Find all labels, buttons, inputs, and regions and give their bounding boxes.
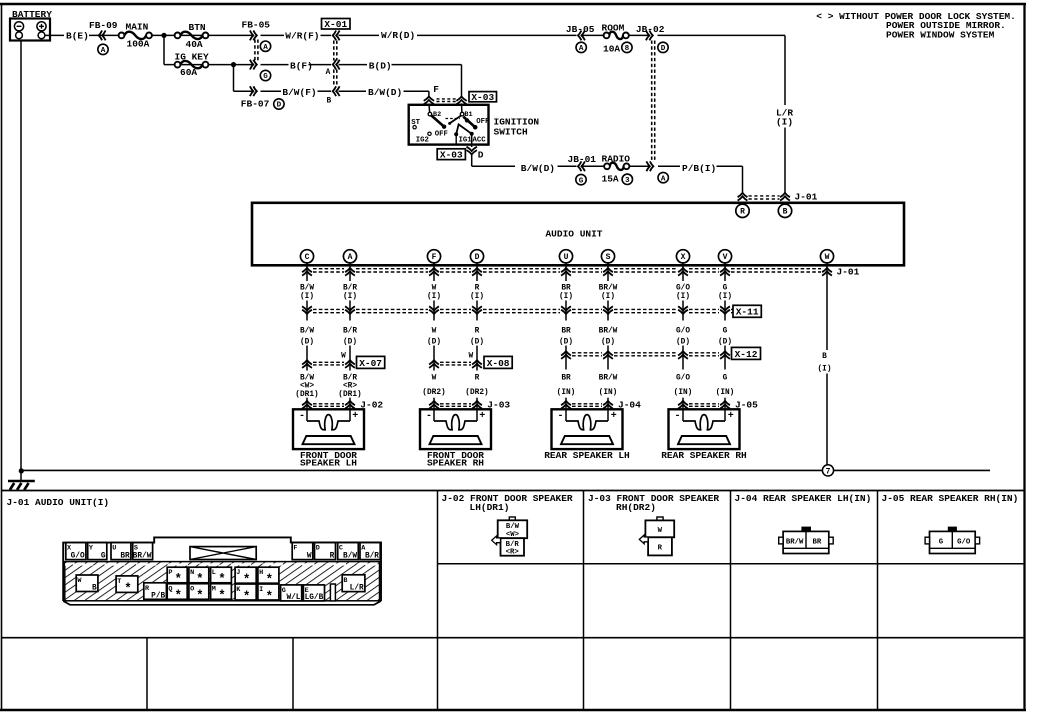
svg-text:BR: BR: [813, 538, 822, 546]
svg-text:X-01: X-01: [324, 19, 347, 30]
svg-text:7: 7: [826, 468, 831, 477]
svg-text:BATTERY: BATTERY: [12, 9, 52, 20]
svg-text:B/R: B/R: [343, 327, 357, 335]
svg-text:SPEAKER LH: SPEAKER LH: [300, 458, 357, 469]
svg-text:G: G: [282, 587, 286, 595]
svg-text:F: F: [433, 84, 439, 95]
svg-text:(I): (I): [718, 293, 732, 301]
svg-text:G: G: [723, 284, 728, 292]
svg-text:W: W: [825, 253, 830, 262]
svg-text:W/R(D): W/R(D): [381, 30, 415, 41]
svg-text:D: D: [661, 45, 666, 53]
svg-text:X-12: X-12: [735, 349, 758, 360]
svg-text:LH(DR1): LH(DR1): [470, 502, 510, 513]
svg-text:(IN): (IN): [599, 389, 618, 397]
svg-text:+: +: [352, 411, 358, 422]
svg-text:N: N: [190, 569, 194, 577]
svg-text:J-01 AUDIO UNIT(I): J-01 AUDIO UNIT(I): [7, 497, 110, 508]
svg-text:AUDIO UNIT: AUDIO UNIT: [545, 228, 602, 239]
svg-text:POWER WINDOW SYSTEM: POWER WINDOW SYSTEM: [886, 30, 995, 41]
svg-text:+: +: [728, 411, 734, 422]
svg-text:FB-09: FB-09: [89, 20, 118, 31]
svg-text:X-03: X-03: [471, 92, 494, 103]
svg-text:BR: BR: [561, 284, 571, 292]
svg-text:U: U: [564, 253, 569, 262]
svg-text:SPEAKER RH: SPEAKER RH: [427, 458, 484, 469]
svg-text:(D): (D): [718, 338, 732, 346]
svg-text:BR: BR: [120, 553, 130, 561]
svg-text:IG1: IG1: [459, 137, 473, 145]
svg-text:J-04 REAR SPEAKER LH(IN): J-04 REAR SPEAKER LH(IN): [735, 493, 872, 504]
svg-text:(D): (D): [470, 338, 484, 346]
svg-text:B/W: B/W: [300, 327, 314, 335]
svg-text:B/R: B/R: [343, 375, 357, 383]
svg-text:W: W: [432, 375, 437, 383]
svg-text:(D): (D): [676, 338, 690, 346]
svg-text:IG2: IG2: [416, 137, 429, 145]
svg-text:J-01: J-01: [795, 192, 818, 203]
svg-text:T: T: [117, 578, 121, 586]
svg-text:M: M: [212, 586, 216, 594]
svg-text:(D): (D): [300, 338, 314, 346]
svg-text:W: W: [432, 327, 437, 335]
svg-text:FB-07: FB-07: [241, 99, 270, 110]
svg-text:(IN): (IN): [557, 389, 576, 397]
svg-text:OFF: OFF: [476, 118, 489, 126]
svg-text:IG KEY: IG KEY: [175, 51, 210, 62]
svg-text:B/W(F): B/W(F): [282, 87, 316, 98]
svg-text:R: R: [475, 375, 480, 383]
svg-text:<W>: <W>: [506, 531, 520, 539]
svg-text:RH(DR2): RH(DR2): [616, 502, 656, 513]
svg-text:BR/W: BR/W: [599, 375, 618, 383]
svg-text:*: *: [218, 589, 226, 603]
svg-text:W/R(F): W/R(F): [285, 31, 319, 42]
svg-text:W: W: [307, 553, 312, 561]
svg-text:I: I: [259, 586, 263, 594]
svg-text:R: R: [658, 545, 663, 553]
svg-text:S: S: [606, 253, 611, 262]
svg-text:W: W: [658, 527, 663, 535]
svg-text:A: A: [661, 175, 666, 183]
svg-text:U: U: [112, 545, 116, 553]
svg-text:R: R: [330, 553, 335, 561]
svg-text:L/R: L/R: [350, 585, 364, 593]
svg-text:B: B: [783, 208, 788, 217]
svg-text:C: C: [305, 253, 310, 262]
svg-text:G/O: G/O: [676, 284, 690, 292]
svg-text:(I): (I): [427, 293, 441, 301]
svg-text:J: J: [236, 569, 240, 577]
svg-text:J-05 REAR SPEAKER RH(IN): J-05 REAR SPEAKER RH(IN): [882, 493, 1019, 504]
svg-text:(I): (I): [817, 365, 831, 373]
svg-text:BR/W: BR/W: [786, 538, 804, 546]
svg-text:*: *: [243, 590, 251, 604]
svg-text:G/O: G/O: [676, 327, 690, 335]
svg-text:B/W: B/W: [300, 284, 314, 292]
svg-text:<R>: <R>: [506, 549, 520, 557]
svg-text:SWITCH: SWITCH: [494, 127, 529, 138]
svg-text:(I): (I): [470, 293, 484, 301]
svg-text:(DR2): (DR2): [422, 389, 445, 397]
svg-text:B/W(D): B/W(D): [368, 87, 402, 98]
svg-text:(I): (I): [676, 293, 690, 301]
svg-text:H: H: [259, 569, 263, 577]
svg-text:LG/B: LG/B: [305, 594, 324, 602]
svg-text:-: -: [299, 411, 305, 422]
svg-text:W: W: [432, 284, 437, 292]
svg-text:<R>: <R>: [343, 383, 357, 391]
svg-text:D: D: [277, 102, 282, 110]
svg-text:BR: BR: [561, 375, 571, 383]
svg-text:A: A: [579, 45, 584, 53]
svg-text:(I): (I): [300, 293, 314, 301]
svg-text:(I): (I): [559, 293, 573, 301]
svg-text:X-08: X-08: [487, 358, 510, 369]
svg-text:(D): (D): [601, 338, 615, 346]
svg-text:R: R: [475, 284, 480, 292]
svg-text:(I): (I): [601, 293, 615, 301]
svg-text:D: D: [316, 545, 320, 553]
svg-text:(DR1): (DR1): [295, 391, 318, 399]
svg-text:D: D: [478, 150, 484, 161]
svg-text:(I): (I): [776, 117, 793, 128]
svg-text:OFF: OFF: [435, 131, 448, 139]
svg-text:G: G: [263, 73, 268, 81]
svg-text:F: F: [432, 253, 437, 262]
svg-text:(DR1): (DR1): [338, 391, 361, 399]
svg-text:+: +: [611, 411, 617, 422]
svg-text:B/W: B/W: [300, 375, 314, 383]
svg-text:BR/W: BR/W: [599, 284, 618, 292]
svg-text:B(D): B(D): [369, 60, 392, 71]
svg-text:B(F): B(F): [290, 60, 313, 71]
svg-text:P/B: P/B: [151, 592, 165, 600]
svg-text:(IN): (IN): [674, 389, 693, 397]
svg-text:A: A: [348, 253, 353, 262]
svg-text:10A: 10A: [603, 43, 620, 54]
svg-text:(D): (D): [343, 338, 357, 346]
svg-text:40A: 40A: [186, 39, 203, 50]
svg-text:100A: 100A: [127, 38, 150, 49]
svg-text:F: F: [293, 545, 297, 553]
svg-text:*: *: [196, 589, 204, 603]
svg-text:P: P: [168, 569, 172, 577]
svg-text:P/B(I): P/B(I): [682, 163, 716, 174]
svg-text:(D): (D): [559, 338, 573, 346]
svg-text:B/R: B/R: [365, 553, 379, 561]
svg-text:G/O: G/O: [957, 539, 971, 547]
svg-text:B/W(D): B/W(D): [521, 163, 555, 174]
svg-text:G: G: [101, 553, 106, 561]
svg-text:G: G: [723, 375, 728, 383]
svg-text:B/R: B/R: [506, 541, 520, 549]
svg-text:REAR SPEAKER RH: REAR SPEAKER RH: [661, 450, 747, 461]
svg-text:(IN): (IN): [716, 389, 735, 397]
svg-text:8: 8: [625, 45, 630, 53]
svg-text:A: A: [263, 44, 268, 52]
svg-text:-: -: [557, 411, 563, 422]
svg-text:S: S: [134, 545, 138, 553]
svg-text:-: -: [426, 411, 432, 422]
svg-text:B: B: [92, 585, 97, 593]
svg-text:B: B: [343, 577, 347, 585]
svg-text:BTN: BTN: [189, 22, 206, 33]
svg-text:X-11: X-11: [736, 307, 759, 318]
svg-text:V: V: [723, 253, 728, 262]
svg-text:J-01: J-01: [837, 267, 860, 278]
svg-text:R: R: [475, 327, 480, 335]
svg-text:BR/W: BR/W: [133, 553, 152, 561]
svg-text:+: +: [479, 411, 485, 422]
svg-text:A: A: [101, 47, 106, 55]
svg-text:G: G: [723, 327, 728, 335]
svg-text:B(E): B(E): [66, 31, 89, 42]
svg-text:G/O: G/O: [676, 375, 690, 383]
svg-text:-: -: [674, 411, 680, 422]
svg-text:B: B: [327, 98, 332, 106]
svg-text:X: X: [681, 253, 686, 262]
svg-text:REAR SPEAKER LH: REAR SPEAKER LH: [544, 450, 630, 461]
svg-text:(DR2): (DR2): [465, 389, 488, 397]
svg-text:W: W: [468, 353, 473, 361]
svg-text:*: *: [124, 582, 132, 596]
svg-text:X-03: X-03: [440, 150, 463, 161]
svg-text:JB-01: JB-01: [568, 154, 597, 165]
svg-text:FB-05: FB-05: [242, 20, 271, 31]
svg-text:G: G: [939, 539, 944, 547]
svg-text:O: O: [190, 586, 194, 594]
svg-text:W/L: W/L: [286, 594, 300, 602]
svg-text:*: *: [174, 589, 182, 603]
svg-text:<W>: <W>: [300, 383, 314, 391]
svg-text:B/R: B/R: [343, 284, 357, 292]
svg-text:B: B: [822, 353, 827, 361]
svg-text:C: C: [339, 545, 343, 553]
svg-text:(D): (D): [427, 338, 441, 346]
svg-text:Q: Q: [168, 586, 172, 594]
svg-text:G/O: G/O: [71, 553, 85, 561]
svg-text:L: L: [212, 569, 216, 577]
svg-text:D: D: [475, 253, 480, 262]
svg-text:B/W: B/W: [343, 553, 357, 561]
svg-text:R: R: [740, 208, 745, 217]
svg-text:B/W: B/W: [506, 523, 520, 531]
svg-text:3: 3: [625, 177, 630, 185]
svg-text:BR: BR: [561, 327, 571, 335]
svg-text:W: W: [341, 353, 346, 361]
svg-text:G: G: [579, 177, 584, 185]
svg-text:X-07: X-07: [359, 358, 382, 369]
svg-text:BR/W: BR/W: [599, 327, 618, 335]
svg-text:A: A: [326, 69, 331, 77]
svg-text:ACC: ACC: [473, 137, 487, 145]
svg-text:15A: 15A: [602, 174, 619, 185]
svg-text:*: *: [266, 590, 274, 604]
svg-text:(I): (I): [343, 293, 357, 301]
